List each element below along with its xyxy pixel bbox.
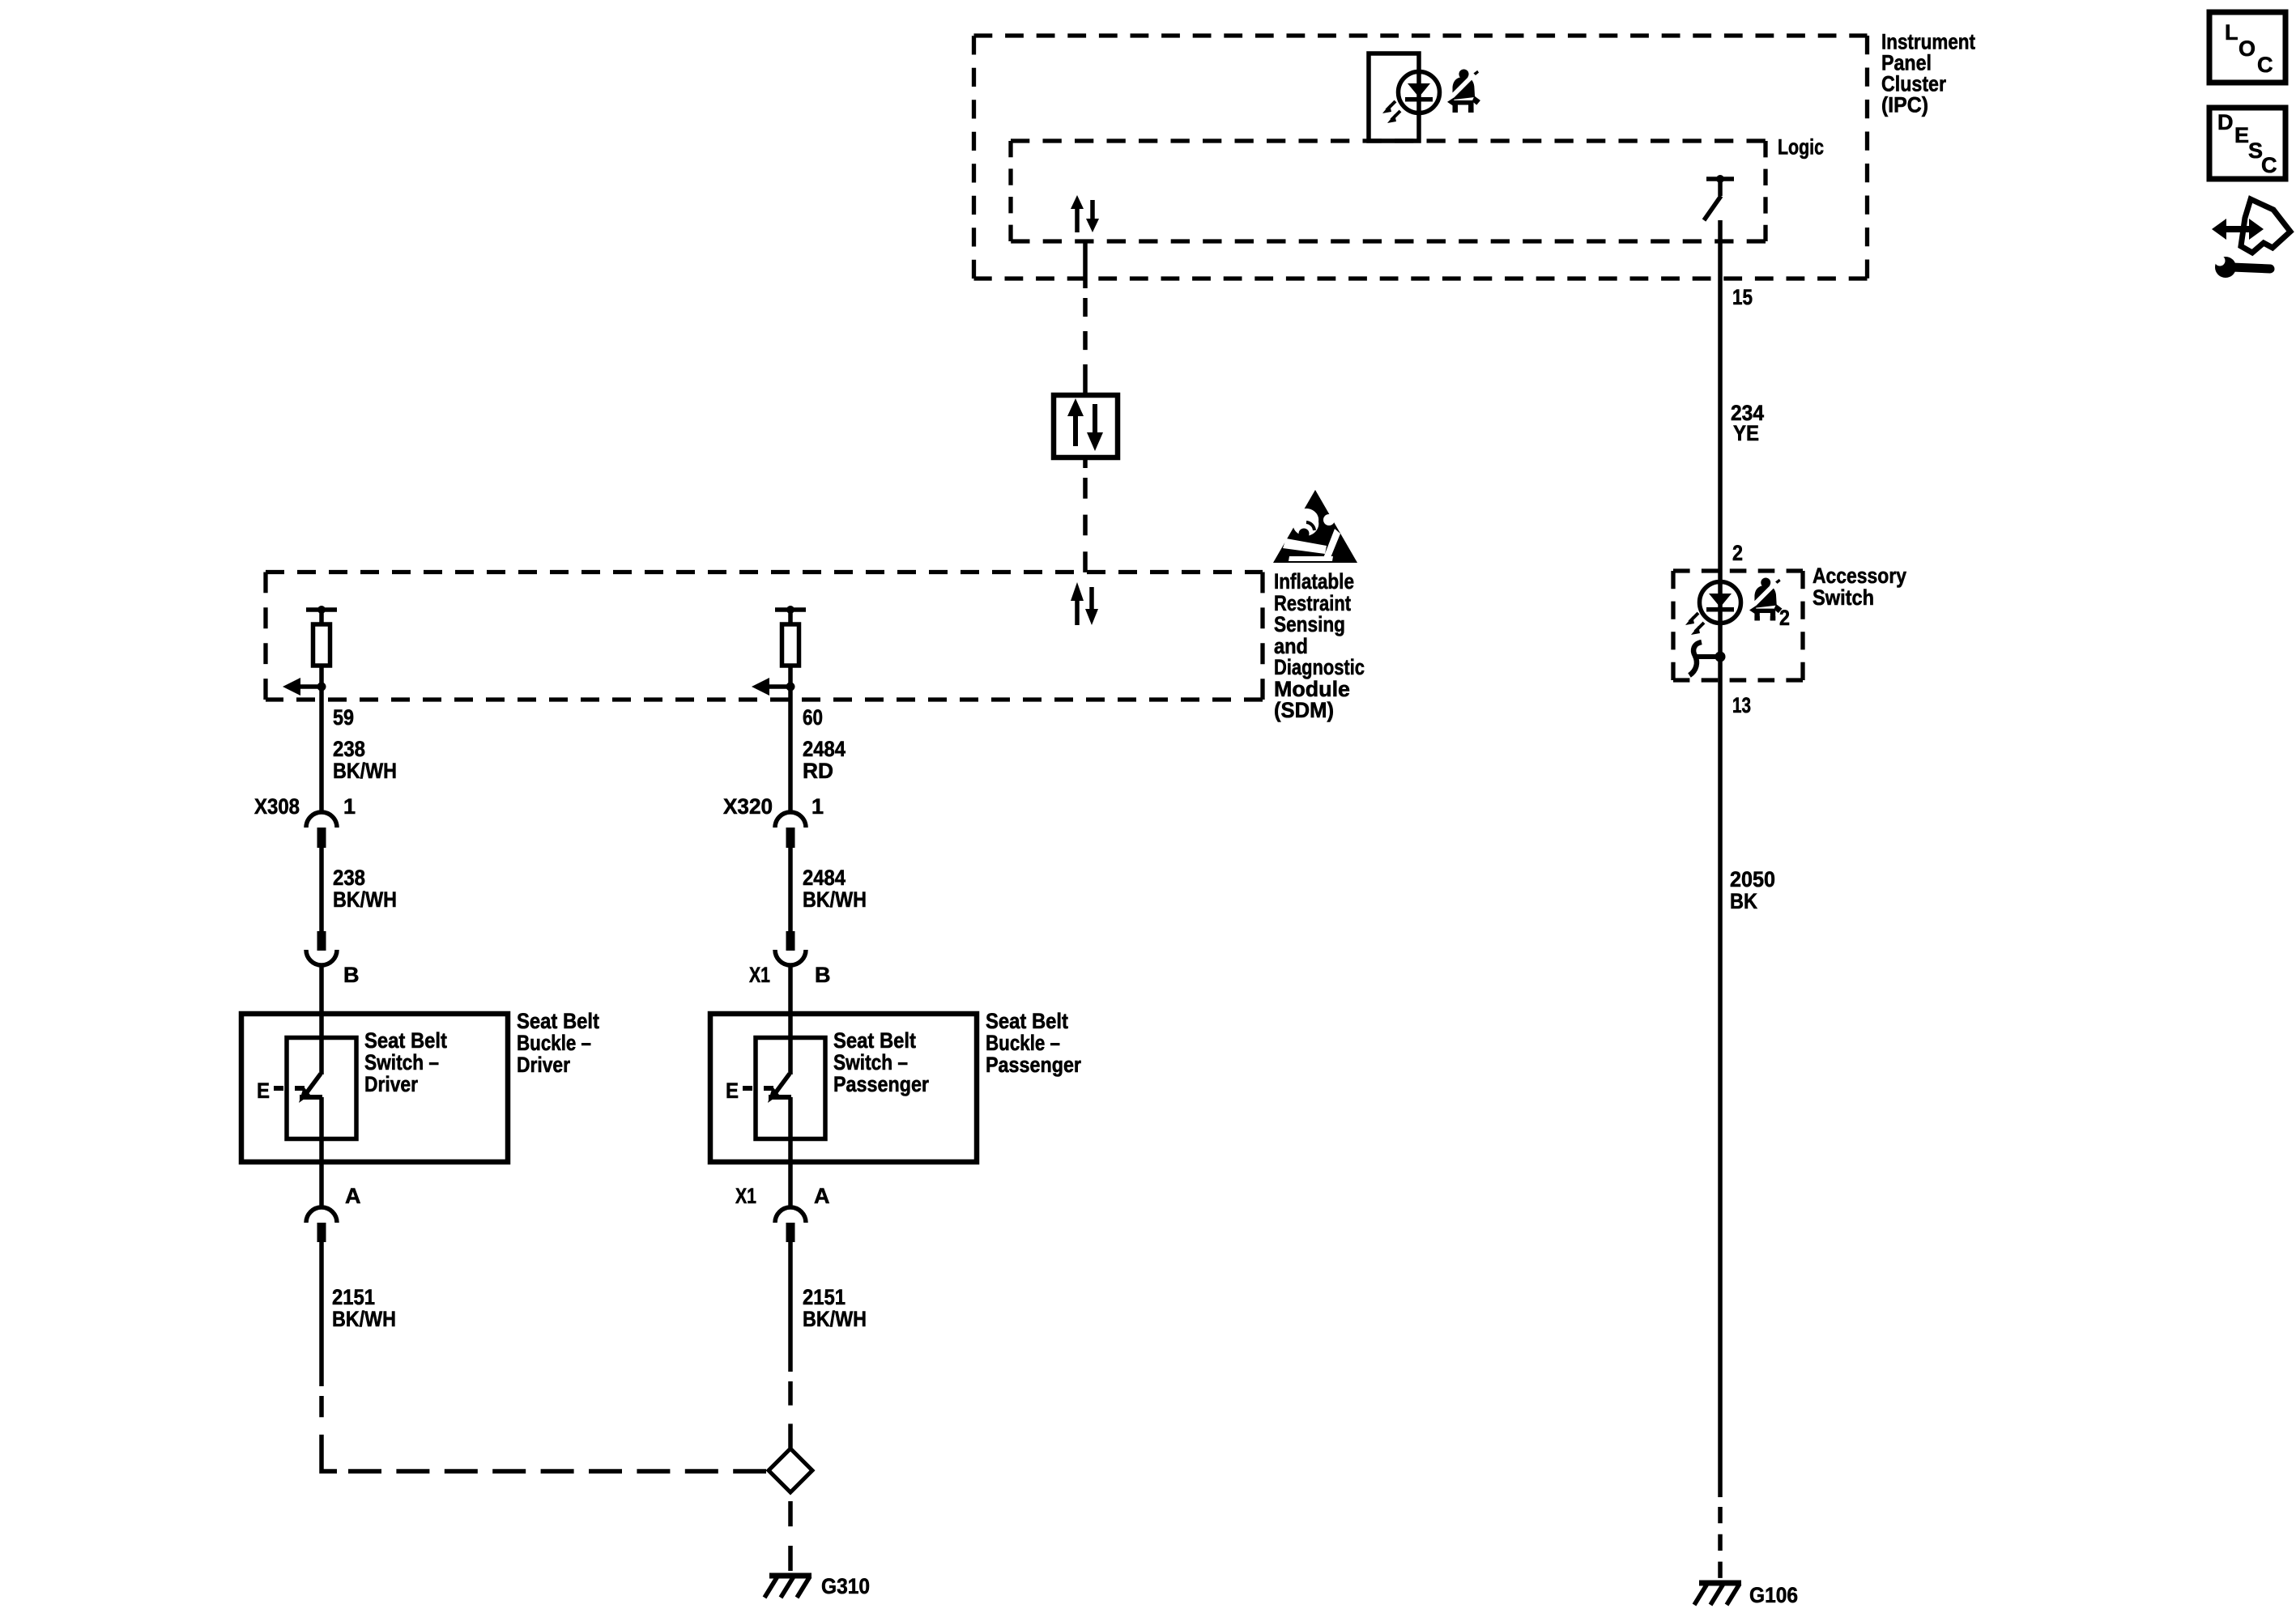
data in/out arrows inside Logic box xyxy=(1071,195,1099,232)
connector B (passenger buckle) xyxy=(775,931,806,965)
svg-text:1: 1 xyxy=(811,794,824,819)
svg-text:BK: BK xyxy=(1730,889,1757,913)
wire: connector to in-line splice (passenger) xyxy=(788,848,793,931)
svg-text:(IPC): (IPC) xyxy=(1881,93,1928,117)
wire 2151 BK/WH driver (solid then dashed to ground splice) xyxy=(319,1242,324,1386)
svg-text:X1: X1 xyxy=(749,963,770,987)
svg-text:Switch –: Switch – xyxy=(833,1050,908,1074)
connector A (driver) xyxy=(306,1207,337,1242)
LED of accessory switch indicator xyxy=(1685,582,1741,657)
accessory switch label xyxy=(1813,564,1906,610)
svg-text:BK/WH: BK/WH xyxy=(803,1307,867,1331)
svg-text:238: 238 xyxy=(333,737,365,761)
svg-text:2484: 2484 xyxy=(803,866,846,890)
svg-text:(SDM): (SDM) xyxy=(1274,698,1334,722)
wire 2050 BK: accessory switch to G106 xyxy=(1718,657,1723,1497)
svg-text:A: A xyxy=(345,1184,361,1208)
wire: buckle box to connector A (passenger) xyxy=(788,1162,793,1206)
up/down arrows inside SDM box xyxy=(1071,582,1098,625)
svg-text:59: 59 xyxy=(333,705,354,730)
svg-text:Passenger: Passenger xyxy=(986,1053,1081,1077)
IPC seat belt indicator lamp loop xyxy=(1369,53,1419,141)
svg-text:E: E xyxy=(257,1079,270,1103)
wire: diamond to G310 (dashed) xyxy=(788,1501,793,1571)
svg-text:E: E xyxy=(2234,123,2249,147)
svg-text:2484: 2484 xyxy=(803,737,846,761)
svg-text:Buckle –: Buckle – xyxy=(986,1031,1060,1055)
wire: serial data box to SDM (dashed) xyxy=(1083,457,1088,468)
box labels, driver xyxy=(364,1028,447,1096)
svg-text:2151: 2151 xyxy=(332,1285,375,1309)
svg-text:L: L xyxy=(2225,20,2238,45)
Seat Belt Buckle box (driver) xyxy=(241,1014,508,1162)
IPC Logic dashed box xyxy=(1011,141,1766,241)
svg-text:Seat Belt: Seat Belt xyxy=(517,1009,599,1033)
svg-text:D: D xyxy=(2217,110,2234,134)
svg-text:G310: G310 xyxy=(821,1574,870,1598)
svg-text:B: B xyxy=(815,963,831,987)
Instrument Panel Cluster (IPC) dashed box xyxy=(974,36,1868,279)
accessory switch seat belt pictogram xyxy=(1749,577,1782,623)
node E (passenger switch) xyxy=(726,1079,773,1103)
svg-text:13: 13 xyxy=(1732,693,1751,717)
pin and wire labels, passenger chain xyxy=(723,705,867,1331)
svg-text:Buckle –: Buckle – xyxy=(517,1031,591,1055)
svg-text:1: 1 xyxy=(343,794,356,819)
svg-text:X308: X308 xyxy=(254,794,300,819)
svg-text:2151: 2151 xyxy=(803,1285,846,1309)
connector B (driver buckle) xyxy=(306,931,337,965)
svg-text:Seat Belt: Seat Belt xyxy=(833,1028,916,1053)
svg-text:Logic: Logic xyxy=(1778,135,1824,160)
svg-text:Switch: Switch xyxy=(1813,585,1874,610)
svg-text:Inflatable: Inflatable xyxy=(1274,569,1354,594)
svg-text:RD: RD xyxy=(803,759,833,783)
wire: buckle box to connector A (driver) xyxy=(319,1162,324,1206)
DESC navigation icon xyxy=(2209,108,2285,179)
ground G106 xyxy=(1694,1583,1741,1605)
SDM dashed box xyxy=(266,572,1263,700)
seat belt switch contacts (driver) xyxy=(299,1014,322,1162)
resistor inside SDM (driver seat belt input, pin 59) xyxy=(283,606,337,696)
connector X308 pin 1 (driver) xyxy=(306,812,337,848)
svg-text:C: C xyxy=(2257,53,2273,77)
wire: dashed run to splice diamond xyxy=(348,1469,766,1474)
Seat Belt Switch box (passenger) xyxy=(756,1038,825,1139)
svg-text:Seat Belt: Seat Belt xyxy=(986,1009,1068,1033)
svg-text:Diagnostic: Diagnostic xyxy=(1274,655,1365,679)
serial data link box xyxy=(1054,395,1118,457)
Accessory Switch dashed box xyxy=(1673,571,1803,680)
svg-text:2050: 2050 xyxy=(1730,867,1775,891)
svg-text:BK/WH: BK/WH xyxy=(332,1307,396,1331)
svg-text:G106: G106 xyxy=(1749,1583,1798,1607)
svg-text:C: C xyxy=(2261,153,2277,177)
wire: resistor to pin 60 xyxy=(788,687,793,811)
ground G310 xyxy=(765,1576,811,1598)
right chain labels xyxy=(1730,285,1775,913)
svg-text:Switch –: Switch – xyxy=(364,1050,439,1074)
Seat Belt Buckle box (passenger) xyxy=(710,1014,977,1162)
connector A (passenger) xyxy=(775,1207,806,1242)
wire: connector B to buckle box (driver) xyxy=(319,966,324,1014)
svg-text:E: E xyxy=(726,1079,739,1103)
IPC label text xyxy=(1881,30,1975,117)
svg-text:BK/WH: BK/WH xyxy=(333,759,397,783)
SDM airbag warning triangle xyxy=(1273,490,1357,563)
wire: connector B to buckle box (passenger) xyxy=(788,966,793,1014)
resistor inside SDM (passenger seat belt input, pin 60) xyxy=(752,606,806,696)
node E (driver switch) xyxy=(257,1079,305,1103)
wire 2151 BK/WH passenger (solid then dashed) xyxy=(788,1242,793,1372)
up/down arrows in serial data box xyxy=(1067,398,1103,451)
svg-text:BK/WH: BK/WH xyxy=(803,887,867,912)
svg-text:60: 60 xyxy=(803,705,823,730)
wire: resistor to pin 59 xyxy=(319,687,324,811)
LED indicator (IPC seat belt lamp) xyxy=(1382,72,1440,124)
seat belt switch contacts (passenger) xyxy=(768,1014,791,1162)
pin and wire labels, driver chain xyxy=(254,705,397,1331)
wire: logic to serial data box (solid then dashed) xyxy=(1083,241,1088,288)
svg-text:Passenger: Passenger xyxy=(833,1072,929,1096)
svg-text:A: A xyxy=(814,1184,830,1208)
IPC seat belt pictogram xyxy=(1447,69,1480,114)
svg-text:O: O xyxy=(2238,36,2256,61)
IPC logic output switch (pin 15 driver) xyxy=(1704,175,1734,220)
svg-text:2: 2 xyxy=(1732,541,1743,565)
SDM label text xyxy=(1274,569,1365,722)
accessory switch contact xyxy=(1689,642,1726,675)
svg-text:X320: X320 xyxy=(723,794,773,819)
svg-text:2: 2 xyxy=(1779,606,1790,630)
wire 234 YE: logic switch to accessory switch xyxy=(1718,220,1723,582)
svg-text:Seat Belt: Seat Belt xyxy=(364,1028,447,1053)
box labels, passenger xyxy=(833,1028,929,1096)
svg-text:B: B xyxy=(343,963,360,987)
LOC navigation icon xyxy=(2209,12,2285,83)
svg-text:Driver: Driver xyxy=(364,1072,418,1096)
svg-text:238: 238 xyxy=(333,866,365,890)
wiring pointer + wrench icon xyxy=(2212,199,2290,278)
svg-text:15: 15 xyxy=(1732,285,1753,309)
splice diamond xyxy=(769,1449,812,1492)
wire: connector to in-line splice (driver) xyxy=(319,848,324,931)
svg-text:Accessory: Accessory xyxy=(1813,564,1906,588)
svg-text:X1: X1 xyxy=(735,1184,756,1208)
svg-text:Driver: Driver xyxy=(517,1053,570,1077)
Seat Belt Switch box (driver) xyxy=(287,1038,356,1139)
connector X320 pin 1 (passenger) xyxy=(775,812,806,848)
svg-text:BK/WH: BK/WH xyxy=(333,887,397,912)
svg-text:YE: YE xyxy=(1733,421,1759,445)
svg-text:Sensing: Sensing xyxy=(1274,612,1345,636)
